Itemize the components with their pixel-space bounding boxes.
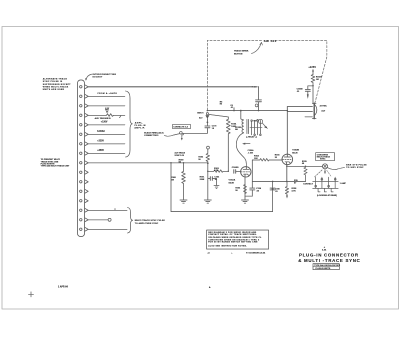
dashed link to contacts	[315, 170, 323, 177]
type box	[313, 264, 339, 270]
grid resistor R154 line	[252, 159, 282, 162]
socket pins 1-16	[80, 85, 89, 231]
label pin4 block	[105, 108, 110, 114]
svg-text:56: 56	[106, 111, 108, 113]
grid line tee	[207, 171, 208, 172]
svg-text:ALTERNATE TRACE: ALTERNATE TRACE	[43, 78, 68, 81]
brace multi trace sync	[128, 208, 133, 234]
svg-text:AUX. TRIGGER IN: AUX. TRIGGER IN	[95, 117, 112, 120]
wire pin9 drop at 171 to bottom bus	[170, 162, 171, 163]
pin 6	[80, 133, 82, 135]
svg-text:6.3VAC: 6.3VAC	[97, 130, 105, 133]
svg-text:CONNECTOR 5: CONNECTOR 5	[144, 135, 159, 137]
svg-text:V152B: V152B	[292, 149, 299, 151]
svg-text:(+ RELAY +): (+ RELAY +)	[246, 135, 257, 138]
label V152B	[292, 149, 299, 154]
pin 9	[80, 162, 82, 164]
wire pin7	[88, 143, 125, 145]
pin 11	[80, 181, 82, 183]
ground grid chain	[204, 200, 211, 203]
svg-text:SW170: SW170	[197, 112, 203, 114]
svg-text:FOR 50 MV RANGE SWITCH SETTING: FOR 50 MV RANGE SWITCH SETTING CRM	[208, 240, 257, 243]
svg-text:SW50I: SW50I	[250, 87, 257, 89]
wire pin9 long	[88, 162, 208, 164]
svg-text:.01: .01	[230, 107, 233, 109]
switch arm to grid resistor	[209, 114, 228, 117]
svg-text:SW 501: SW 501	[264, 39, 277, 43]
svg-text:TYPE 3A6 OSCILLOSCOPE: TYPE 3A6 OSCILLOSCOPE	[314, 264, 341, 267]
cathode rail y181.5	[252, 181, 305, 183]
labels at contact bar	[320, 104, 328, 112]
resistor R1047	[311, 75, 315, 86]
grid line with resistor R163	[208, 170, 229, 173]
pin 2	[80, 95, 82, 97]
pin 10	[80, 171, 82, 173]
svg-text:TRACE SEPAR.: TRACE SEPAR.	[234, 49, 249, 52]
label MULTI TRACE SYNC PULSE	[135, 219, 166, 225]
svg-text:P. OCONNOR 4-6-64: P. OCONNOR 4-6-64	[246, 251, 266, 254]
svg-text:+225V: +225V	[97, 141, 104, 143]
pin 3	[80, 105, 82, 107]
svg-text:4 SYNC: 4 SYNC	[320, 104, 328, 107]
label V152A	[229, 179, 236, 185]
label BKR SYN PULSE	[346, 164, 367, 169]
capacitor C162 series in grid line	[234, 170, 236, 174]
pin 7	[80, 143, 82, 145]
main bus wire y110.6	[207, 110, 287, 112]
svg-text:V152A: V152A	[229, 179, 236, 182]
pin 1	[80, 86, 82, 88]
triode V152B	[282, 154, 293, 181]
svg-text:T50: T50	[253, 121, 256, 123]
svg-text:+350V: +350V	[97, 150, 104, 152]
bottom-left register mark	[29, 292, 34, 297]
svg-text:PLUG-IN UNITS: PLUG-IN UNITS	[315, 268, 330, 270]
resistor R162 in vertical	[206, 149, 209, 163]
boxed label contacts	[172, 125, 190, 129]
svg-text:TO SW5 SYNC: TO SW5 SYNC	[346, 167, 364, 169]
left leg down to rail	[251, 160, 253, 182]
svg-text:CONTACT DETAIL OF TRACE SWITCH: CONTACT DETAIL OF TRACE SWITCHING.	[208, 233, 257, 236]
brace amplifier plug-in	[126, 91, 133, 157]
capacitor C1048 branch	[308, 86, 313, 94]
wire pin1 +300V line	[88, 86, 258, 88]
svg-text:BUTTON: BUTTON	[234, 53, 243, 55]
pin 8	[80, 152, 82, 154]
svg-text:TO AMPLITUDE SYNC: TO AMPLITUDE SYNC	[135, 222, 159, 225]
label R161	[200, 177, 206, 182]
note text block A	[43, 78, 72, 91]
terminal circle	[255, 104, 258, 107]
label AMPL PLUG-IN UNIT	[134, 121, 145, 129]
svg-text:FROM A +GATE: FROM A +GATE	[98, 92, 118, 95]
svg-text:1M: 1M	[316, 79, 319, 81]
junction pin9 line	[207, 162, 209, 164]
svg-text:+150V: +150V	[101, 122, 108, 124]
svg-text:CONTACTS 1-4: CONTACTS 1-4	[173, 126, 188, 129]
svg-text:.1 25V: .1 25V	[248, 153, 254, 155]
svg-text:MULTI TRACE SYNC PULSE: MULTI TRACE SYNC PULSE	[135, 219, 166, 222]
boxed label concerns multi-trace	[316, 153, 335, 161]
svg-text:SYNC: SYNC	[320, 159, 326, 161]
svg-text:UNITS ARE USED: UNITS ARE USED	[43, 88, 65, 91]
svg-text:BLACK PANEL (ALT): BLACK PANEL (ALT)	[144, 132, 164, 135]
wire pin6	[88, 133, 125, 135]
wire to common ground	[245, 195, 252, 197]
svg-text:4.7K: 4.7K	[292, 190, 297, 193]
svg-text:TYPE 3A6 MULTI TRACE UNIT: TYPE 3A6 MULTI TRACE UNIT	[41, 165, 70, 168]
wire pin3	[88, 105, 125, 107]
svg-text:PLUG-IN CONNECTOR: PLUG-IN CONNECTOR	[299, 252, 359, 257]
arrow below jack	[324, 170, 326, 173]
svg-text:1 AMP: 1 AMP	[340, 182, 347, 185]
triode V152A	[241, 167, 251, 200]
svg-text:+225V: +225V	[308, 66, 316, 69]
sync jack	[323, 164, 328, 169]
note text block B	[41, 159, 70, 167]
svg-text:AMPLIF.: AMPLIF.	[134, 127, 145, 130]
label R5 above bus	[220, 102, 223, 106]
ground V152A cathode	[242, 200, 249, 203]
label alt trace above pin9 line	[175, 151, 186, 156]
capacitor C150 series	[256, 100, 262, 102]
label R159A on pin9 line	[179, 159, 185, 163]
notes box	[207, 230, 269, 249]
svg-text:1M: 1M	[171, 180, 174, 182]
SW170 alt switch on dashed line	[206, 113, 208, 115]
svg-text:4.7K: 4.7K	[214, 169, 219, 172]
pin 5	[80, 124, 82, 126]
relay wire curve to V152A plate	[236, 133, 246, 167]
signature row	[207, 251, 266, 254]
resistor R159	[305, 166, 306, 167]
svg-text:SYNC 5-10: SYNC 5-10	[175, 155, 185, 157]
resistor R164 tall vertical	[226, 117, 230, 171]
label RY150	[235, 127, 268, 131]
pin 12	[80, 190, 82, 192]
svg-text:6DJ8: 6DJ8	[229, 183, 235, 185]
pin 15	[80, 219, 82, 221]
relay armature circle	[259, 119, 263, 123]
grid chain terminal circle	[207, 146, 210, 149]
svg-text:& MULTI -TRACE SYNC: & MULTI -TRACE SYNC	[298, 258, 360, 263]
wire pin5	[88, 124, 125, 126]
label black panel connector	[144, 132, 164, 138]
leader to socket top	[86, 74, 92, 80]
svg-text:1 APR 64: 1 APR 64	[58, 286, 69, 289]
annotation arrow	[245, 143, 251, 145]
junction dot	[207, 110, 208, 111]
wire pin4 with resistor	[88, 114, 125, 117]
wire pin8	[88, 152, 125, 154]
ground R160	[180, 200, 187, 203]
cathode resistor R158	[286, 181, 287, 182]
cathode resistor R152	[244, 185, 247, 194]
svg-text:CONTACT: CONTACT	[303, 182, 313, 185]
pin 4	[80, 114, 82, 116]
svg-text:220K: 220K	[200, 179, 205, 181]
svg-text:SOCKET: SOCKET	[92, 77, 103, 79]
pin 16	[80, 228, 82, 230]
wire pin2	[88, 95, 125, 97]
svg-text:(LOOKING AT REAR): (LOOKING AT REAR)	[317, 194, 337, 197]
pin 14	[80, 209, 82, 211]
svg-text:WHEN MULTI-TRACE: WHEN MULTI-TRACE	[43, 85, 69, 88]
SW501 contact bar	[287, 103, 317, 118]
label INTERCONNECTING SOCKET	[92, 74, 116, 79]
resistor R160 to ground	[183, 162, 184, 163]
svg-text:6DJ8: 6DJ8	[292, 153, 298, 155]
wire to relay switch	[183, 132, 207, 134]
sync output line	[288, 165, 323, 167]
pin 13	[80, 200, 82, 202]
relay K150	[240, 110, 262, 136]
wire pin15 with loop terminal	[88, 219, 108, 221]
interconnecting socket J1	[78, 80, 85, 237]
label TRACE SEP BUTTON	[234, 49, 249, 55]
capacitor C170	[205, 126, 210, 128]
capacitor C154 on left leg	[251, 182, 253, 197]
capacitor C163 branch	[208, 179, 217, 186]
labels contact assembly	[294, 180, 347, 197]
diode CR170	[206, 115, 210, 118]
svg-text:ALSO SEE INSTRUCTION NOTES.: ALSO SEE INSTRUCTION NOTES.	[208, 245, 247, 248]
svg-text:AMPL.: AMPL.	[135, 121, 143, 124]
wire pin16	[88, 228, 127, 230]
V152B plate wire	[287, 110, 288, 111]
label C150A	[248, 149, 255, 155]
relay switch contact SW150	[180, 132, 183, 135]
wire from pin1 corner down x258.5	[258, 87, 260, 100]
capacitor C tick at 234	[233, 108, 235, 111]
SW501 dashed mechanical linkage enclosure	[207, 40, 326, 110]
contact assembly SW501 rear	[313, 177, 339, 192]
wire pin14	[88, 209, 127, 211]
svg-text:18: 18	[212, 128, 214, 130]
junction at 228 grid	[228, 171, 229, 172]
leader arrow to SW501	[252, 43, 262, 54]
svg-text:BKR SYN PULSE: BKR SYN PULSE	[346, 164, 367, 166]
capacitor C155 leg to bottom bus	[272, 181, 273, 182]
svg-text:12K: 12K	[254, 158, 258, 160]
